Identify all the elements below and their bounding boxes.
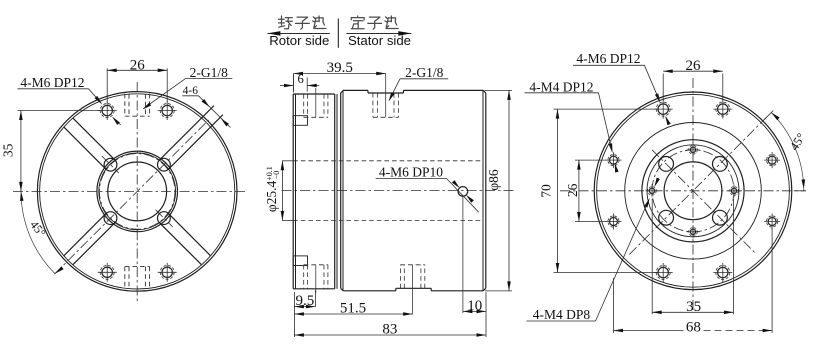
left view center bore circle phi25.4 [108, 162, 167, 221]
left view M6 tapped hole #4 [162, 267, 172, 277]
right view 4 M4 tapped holes on inner bolt circle [690, 147, 695, 152]
M6 DP10 tapped hole side view [458, 187, 468, 197]
svg-text:51.5: 51.5 [340, 300, 366, 316]
dimension 83 middle view [294, 334, 486, 336]
dimension 68 bottom of right view [613, 278, 615, 333]
middle view horizontal centerline [282, 190, 515, 192]
stator G1/8 port bottom (hidden) [399, 265, 401, 289]
svg-text:70: 70 [539, 184, 554, 198]
stator side arrow line [346, 32, 411, 34]
right view 4 clearance holes at 45deg [713, 157, 728, 172]
left view M6 tapped hole #2 [162, 105, 172, 115]
rotor flange left face (double line) [292, 94, 294, 289]
dimension phi25.4 middle view [282, 160, 293, 162]
left view slot lines #3 [64, 214, 106, 256]
dimension 6 middle view [293, 75, 295, 92]
dimension 51.5 middle view [294, 313, 412, 315]
right view outer rim circle (inner) [597, 94, 790, 287]
left view slot lines #2 [73, 118, 115, 160]
svg-text:4-M6 DP12: 4-M6 DP12 [20, 75, 84, 90]
svg-text:2-G1/8: 2-G1/8 [405, 65, 443, 80]
middle view bore hidden lines [293, 160, 483, 162]
label rotor-side Chinese 转子边 (SVG strokes) [279, 16, 293, 29]
svg-text:φ25.4+0.1−0: φ25.4+0.1−0 [264, 166, 281, 212]
rotor G1/8 port top (hidden) [303, 94, 305, 117]
dimension 26 top of right view [662, 74, 664, 101]
svg-text:Rotor side: Rotor side [269, 33, 329, 48]
rotor housing outline [293, 93, 335, 95]
label rotor-side Chinese 边 [313, 16, 326, 29]
left view outer rim circle (outer) [37, 92, 237, 292]
svg-text:35: 35 [686, 299, 701, 315]
rotor G1/8 port bottom (hidden) [303, 265, 305, 289]
right view outer M6 holes top/bottom pairs [658, 104, 668, 114]
dimension 26 left inner of right view [575, 159, 606, 161]
svg-text:9.5: 9.5 [296, 293, 315, 309]
left view boss circle inner [99, 153, 176, 230]
right view outer M4 holes left/right pairs [610, 156, 618, 164]
svg-text:4-6: 4-6 [183, 85, 199, 97]
rotor small step rect bottom-left [293, 256, 307, 266]
svg-text:4-M4 DP8: 4-M4 DP8 [533, 307, 591, 322]
left view G1/8 port bottom (hidden) [124, 267, 126, 290]
svg-text:45°: 45° [27, 218, 48, 240]
left view hole 6mm #3 [104, 212, 117, 225]
dimension 70 left of right view [554, 108, 659, 110]
right view vertical centerline [692, 78, 694, 313]
right view face circle r68 [625, 123, 762, 260]
right view center bore circle [664, 162, 722, 220]
left view hole 6mm #4 [158, 212, 171, 225]
stator G1/8 port top (hidden) [372, 93, 374, 117]
svg-text:26: 26 [565, 183, 580, 197]
dimension 35 bottom of right view [651, 199, 653, 314]
dimension 9.5 middle view [293, 292, 295, 337]
left view bolt circle (dash-dot) [99, 154, 175, 230]
divider line between rotor/stator labels [337, 19, 339, 48]
dimension 35 left side of left view [18, 110, 101, 112]
right view outer rim circle (outer) [594, 92, 792, 290]
svg-text:35: 35 [1, 143, 16, 157]
left view M6 tapped hole #3 [102, 267, 112, 277]
left view slot lines #1 [169, 115, 223, 170]
svg-text:26: 26 [686, 58, 702, 74]
right view 45deg diagonal centerline [629, 117, 766, 254]
left view hole 6mm #2 [104, 158, 117, 171]
left view 45deg diagonal centerline [55, 120, 209, 274]
right view flange circle outer [642, 140, 744, 242]
stator body outline [340, 93, 342, 288]
dimension 39.5 middle view [293, 74, 295, 93]
label rotor-side Chinese 子 [296, 17, 310, 29]
dimension phi86 middle view [485, 89, 513, 91]
left view slot lines #4 [159, 223, 201, 265]
rotor side arrow line [267, 32, 329, 34]
svg-text:26: 26 [130, 57, 146, 73]
dimension 45deg arc left view [21, 191, 55, 273]
left view hole 6mm #1 [158, 158, 171, 171]
dimension 10 middle view [485, 292, 487, 337]
left view 135deg diagonal centerline segments [102, 156, 119, 173]
stator bottom edge with port recess [343, 290, 396, 292]
right view horizontal centerline [560, 190, 806, 192]
svg-text:45°: 45° [787, 131, 808, 153]
right view flange circle inner [647, 145, 739, 237]
stator right face double line [485, 93, 487, 288]
svg-text:39.5: 39.5 [327, 60, 353, 76]
svg-text:2-G1/8: 2-G1/8 [190, 65, 228, 80]
right view 135deg diagonal centerline [652, 150, 757, 255]
stator top G1/8 port recess [367, 90, 369, 93]
right view inner bolt circle dash-dot [652, 150, 734, 232]
left view vertical centerline [136, 82, 138, 304]
svg-text:4-M6 DP10: 4-M6 DP10 [379, 165, 443, 180]
svg-text:10: 10 [467, 298, 482, 314]
svg-text:83: 83 [382, 322, 397, 338]
dimension 26 top of left view [106, 68, 108, 102]
svg-text:4-M4 DP12: 4-M4 DP12 [529, 79, 593, 94]
left view boss circle outer [97, 151, 178, 232]
left view M6 tapped hole #1 [102, 105, 112, 115]
svg-text:68: 68 [686, 319, 701, 335]
dimension 45deg arc right view [794, 190, 806, 192]
left view horizontal centerline [13, 190, 246, 192]
stator top-right corner [483, 90, 486, 93]
left view G1/8 port top (hidden) [124, 94, 126, 117]
label stator-side Chinese 定子边 [351, 16, 364, 29]
rotor small step rect top-left [293, 116, 307, 126]
left view outer rim circle (inner) [40, 94, 235, 289]
svg-text:4-M6 DP12: 4-M6 DP12 [576, 51, 640, 66]
svg-text:φ86: φ86 [486, 169, 501, 191]
svg-text:Stator side: Stator side [348, 33, 411, 48]
